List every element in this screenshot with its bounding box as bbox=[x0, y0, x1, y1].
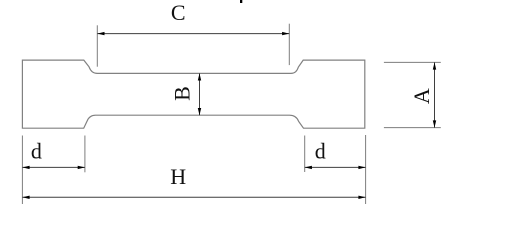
svg-text:H: H bbox=[170, 164, 186, 189]
svg-text:d: d bbox=[315, 139, 326, 164]
arrow d-right right bbox=[358, 166, 365, 169]
dimension d right line bbox=[305, 166, 366, 168]
arrow d-left left bbox=[22, 166, 29, 169]
specimen outline (dog-bone tensile bar) bbox=[22, 60, 364, 128]
dimension A extension line bottom bbox=[384, 127, 441, 129]
arrow H right bbox=[358, 196, 365, 199]
dimension C extension line left bbox=[96, 25, 98, 66]
dimension A line bbox=[434, 62, 436, 127]
arrow C right bbox=[282, 32, 289, 35]
dimension H line bbox=[22, 196, 365, 198]
stray black mark at top edge bbox=[240, 0, 242, 3]
extension line d right inner bbox=[304, 136, 306, 173]
arrow d-right left bbox=[305, 166, 312, 169]
dimension A extension line top bbox=[384, 61, 441, 63]
arrow H left bbox=[22, 196, 29, 199]
svg-text:A: A bbox=[409, 88, 434, 104]
dimension C extension line right bbox=[288, 24, 290, 65]
arrow C left bbox=[97, 32, 104, 35]
arrow d-left right bbox=[78, 166, 85, 169]
dimension d left line bbox=[22, 166, 85, 168]
dimension C line bbox=[97, 33, 289, 35]
dimension B line bbox=[199, 73, 201, 115]
shared left extension line (d left + H) bbox=[21, 136, 23, 205]
svg-text:d: d bbox=[31, 139, 42, 164]
arrow B top bbox=[198, 73, 201, 80]
arrow A top bbox=[433, 62, 436, 69]
extension line d left inner bbox=[84, 136, 86, 173]
svg-text:C: C bbox=[171, 0, 186, 25]
shared right extension line (d right + H) bbox=[365, 135, 367, 204]
svg-text:B: B bbox=[169, 86, 194, 101]
arrow A bottom bbox=[433, 120, 436, 127]
arrow B bottom bbox=[198, 108, 201, 115]
